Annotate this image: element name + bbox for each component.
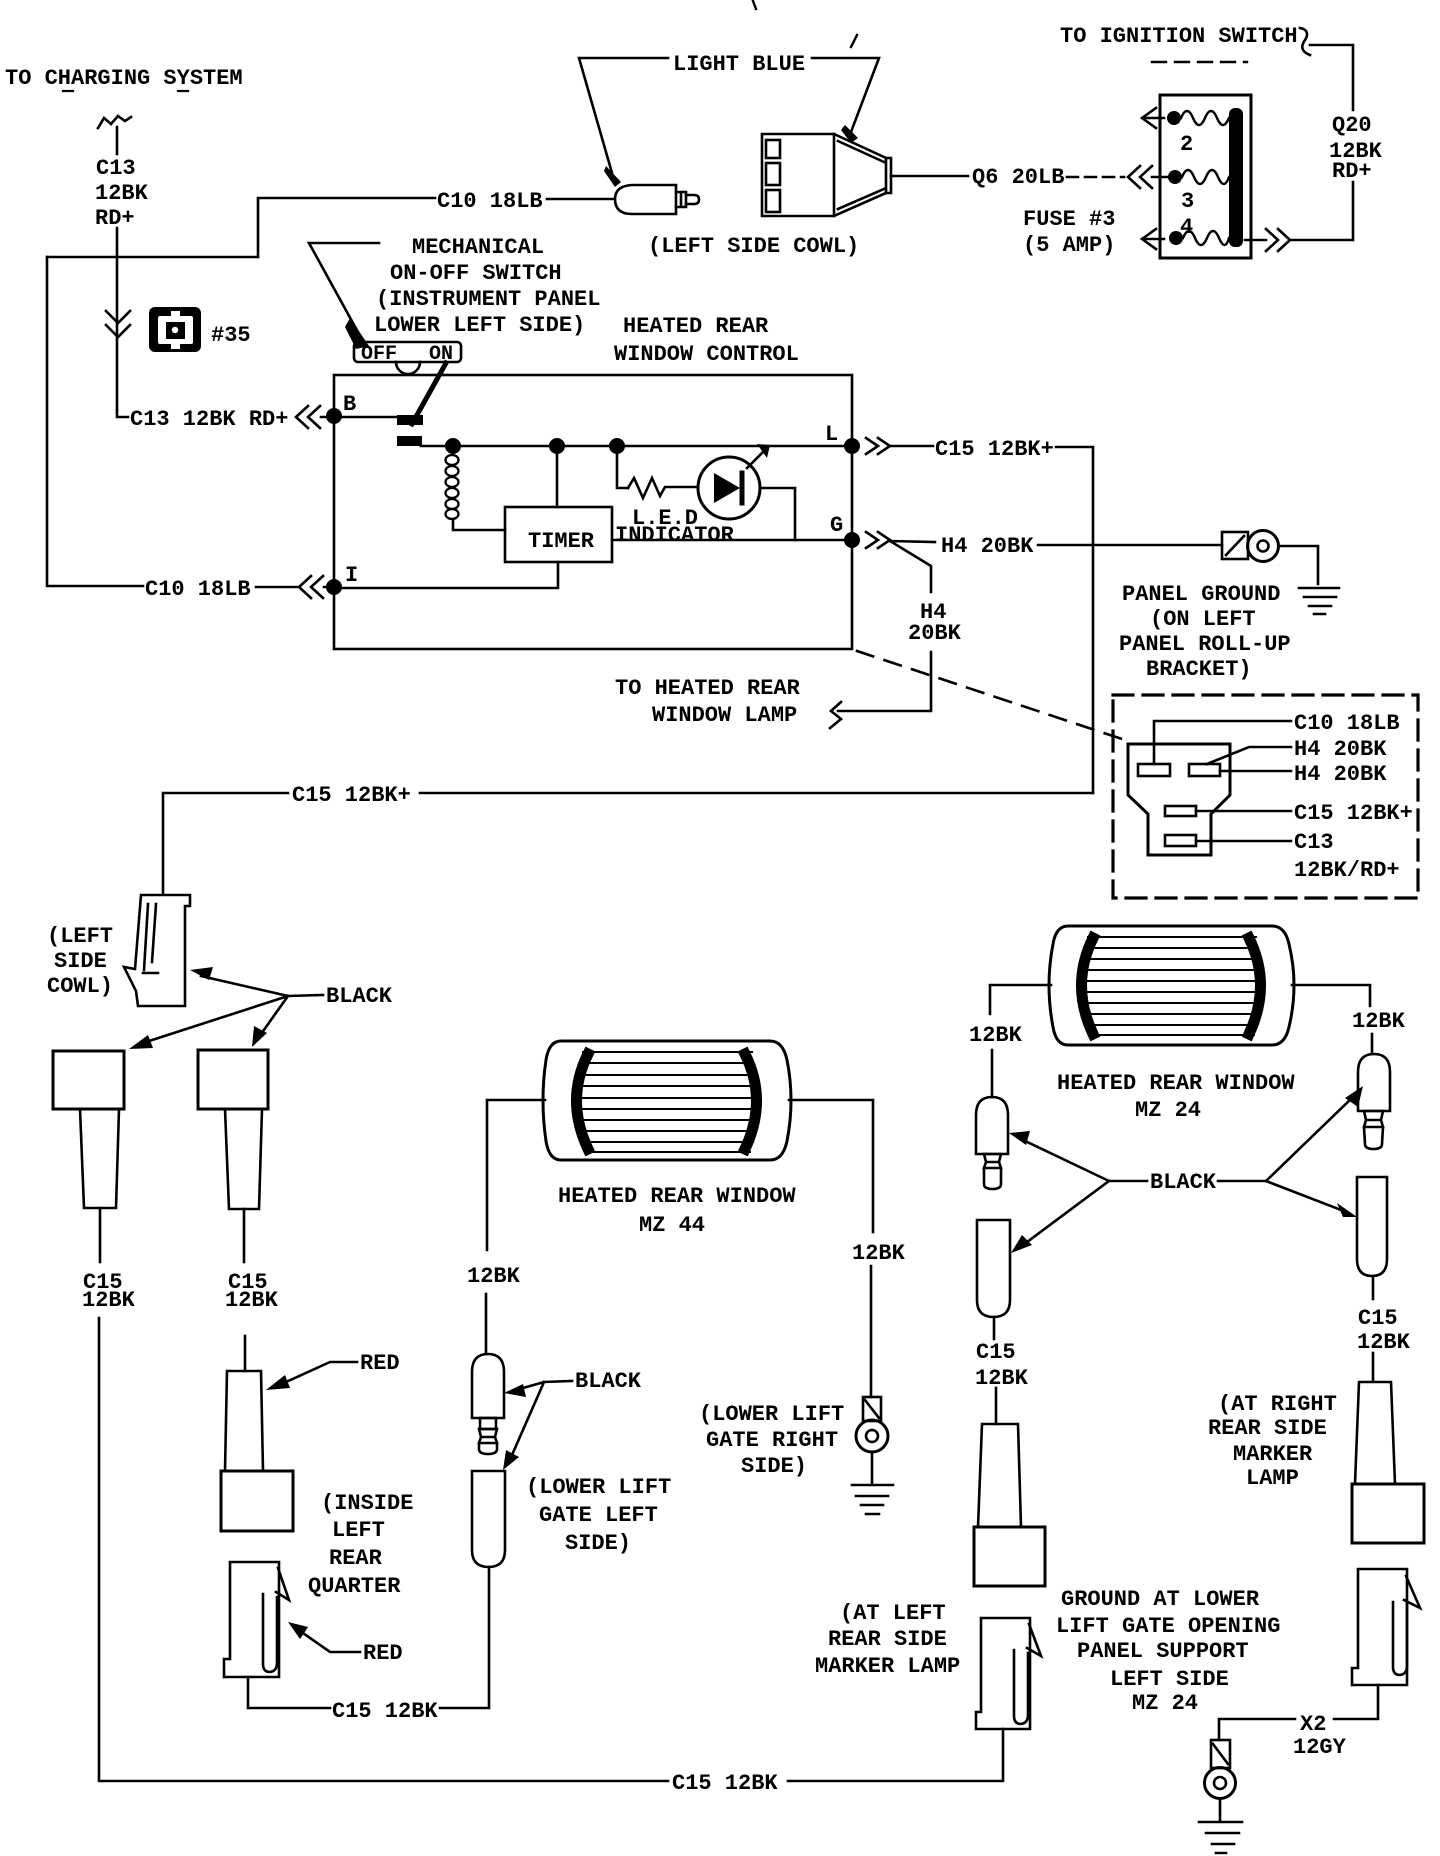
svg-text:G: G [830, 513, 843, 538]
fuse bus bar [1229, 108, 1243, 247]
wire to right marker tower [1372, 1353, 1375, 1381]
svg-text:MECHANICAL: MECHANICAL [412, 235, 544, 260]
svg-text:RD+: RD+ [1332, 159, 1372, 184]
wire to bulb connector [485, 1294, 488, 1354]
connector latch (red lower) [224, 1562, 289, 1677]
chevron connector at node G [866, 532, 935, 548]
eyelet terminal MZ24 ground [1205, 1740, 1236, 1799]
wire eyelet to ground [1279, 546, 1318, 584]
bulb socket connector MZ24 right [1358, 1054, 1390, 1149]
svg-text:#35: #35 [211, 323, 251, 348]
arrowhead at left socket [1009, 1131, 1030, 1145]
wire C10 to bullet connector [547, 198, 614, 201]
wire to socket [991, 1050, 994, 1097]
svg-text:C15 12BK: C15 12BK [332, 1699, 438, 1724]
svg-text:20BK: 20BK [908, 621, 962, 646]
arrowhead at capsule [503, 1450, 519, 1470]
wire node 3 to resistor [617, 453, 628, 488]
leader BLACK to left socket [1023, 1140, 1147, 1181]
leader BLACK to capsule [512, 1382, 544, 1455]
leader RED upper [286, 1362, 357, 1382]
dashed leader from control box to detail [857, 651, 1125, 740]
svg-text:WINDOW LAMP: WINDOW LAMP [652, 703, 797, 728]
arrowhead at left tower [129, 1035, 153, 1049]
pin cavity H4 [1189, 764, 1220, 776]
leader C10 18LB [1154, 721, 1291, 764]
chevron connector fuse output [1266, 229, 1290, 251]
svg-text:MARKER LAMP: MARKER LAMP [815, 1654, 960, 1679]
wire to left marker tower [995, 1388, 998, 1424]
svg-text:INDICATOR: INDICATOR [615, 523, 735, 548]
svg-text:2: 2 [1180, 132, 1193, 157]
svg-text:BRACKET): BRACKET) [1146, 657, 1252, 682]
bulb socket connector (lower lift gate left) [472, 1354, 504, 1454]
svg-text:TIMER: TIMER [528, 529, 595, 554]
stray tick mark top center [753, 1, 756, 9]
terminal tower right body [225, 1109, 262, 1209]
svg-text:FUSE #3: FUSE #3 [1023, 207, 1115, 232]
arrowhead RED lower [288, 1622, 308, 1639]
pin cavity C13 [1165, 835, 1196, 846]
svg-text:SIDE): SIDE) [565, 1531, 631, 1556]
svg-text:C15 12BK+: C15 12BK+ [292, 783, 411, 808]
connector (left side cowl) [124, 895, 190, 1006]
chevron connector into node B [296, 406, 327, 428]
heater element MZ24 grid lines [1085, 937, 1259, 1035]
wire to right socket [1371, 1034, 1374, 1054]
wire left marker to bottom run [788, 1729, 1003, 1781]
svg-text:BLACK: BLACK [575, 1369, 642, 1394]
eyelet terminal (lower lift gate right) [856, 1397, 888, 1452]
svg-text:12BK: 12BK [969, 1023, 1023, 1048]
terminal tower left cap [53, 1051, 124, 1109]
svg-text:MZ 44: MZ 44 [639, 1213, 705, 1238]
chevron connector on C13 wire [106, 311, 130, 337]
wire to eyelet [870, 1266, 873, 1397]
wire eyelet to ground [871, 1452, 874, 1484]
svg-text:(INSIDE: (INSIDE [321, 1491, 413, 1516]
node B [326, 408, 342, 424]
svg-text:C13 12BK RD+: C13 12BK RD+ [130, 407, 288, 432]
svg-text:REAR SIDE: REAR SIDE [1208, 1416, 1327, 1441]
svg-text:PANEL ROLL-UP: PANEL ROLL-UP [1119, 632, 1291, 657]
LED indicator D1 [698, 444, 770, 519]
svg-text:X2: X2 [1300, 1712, 1326, 1737]
svg-text:3: 3 [1181, 189, 1194, 214]
wire dashes to fuse chevron [1067, 176, 1124, 179]
leader BLACK to right capsule [1266, 1181, 1341, 1210]
svg-text:C15: C15 [976, 1340, 1016, 1365]
heater element MZ24 outline [1049, 926, 1294, 1045]
fuse block #3 outline [1160, 95, 1251, 258]
svg-text:TO CHARGING SYSTEM: TO CHARGING SYSTEM [5, 66, 243, 91]
wire H4 to panel ground [1038, 544, 1222, 547]
fuse element middle [1182, 170, 1229, 184]
svg-text:PANEL SUPPORT: PANEL SUPPORT [1077, 1639, 1249, 1664]
svg-text:HEATED REAR: HEATED REAR [623, 314, 769, 339]
wire Q20 top run [1310, 45, 1353, 110]
bulb capsule MZ24 right [1357, 1177, 1387, 1276]
svg-text:GROUND AT LOWER: GROUND AT LOWER [1061, 1587, 1260, 1612]
svg-text:RED: RED [363, 1641, 403, 1666]
leader BLACK to socket [516, 1381, 572, 1390]
arrowhead on bullet connector [604, 166, 621, 187]
svg-text:COWL): COWL) [47, 974, 113, 999]
svg-text:H4 20BK: H4 20BK [1294, 737, 1387, 762]
svg-text:SIDE): SIDE) [741, 1454, 807, 1479]
arrowhead at switch [345, 318, 369, 349]
svg-text:(AT RIGHT: (AT RIGHT [1218, 1392, 1337, 1417]
wire X2 to eyelet [1219, 1719, 1295, 1740]
leader BLACK to left tower [143, 996, 288, 1043]
wire break hook at window lamp [830, 702, 841, 728]
svg-text:12BK: 12BK [1352, 1009, 1406, 1034]
bullet connector male (left side cowl) [615, 185, 699, 214]
svg-text:C10 18LB: C10 18LB [1294, 711, 1400, 736]
node L [844, 438, 860, 454]
svg-text:B: B [343, 392, 356, 417]
wire MZ44 left lead [487, 1100, 545, 1250]
wire below right capsule [1372, 1276, 1375, 1299]
wire node B to switch [341, 416, 398, 419]
node I [326, 579, 342, 595]
svg-text:Q6 20LB: Q6 20LB [972, 165, 1064, 190]
svg-text:C10 18LB: C10 18LB [145, 577, 251, 602]
svg-text:BLACK: BLACK [326, 984, 393, 1009]
svg-text:12BK: 12BK [975, 1366, 1029, 1391]
arrow out of pin 2 [1142, 108, 1164, 128]
splice symbol #35 [149, 307, 201, 352]
svg-text:(AT LEFT: (AT LEFT [840, 1601, 946, 1626]
svg-text:H4 20BK: H4 20BK [1294, 762, 1387, 787]
heater element MZ44 outline [543, 1041, 791, 1160]
wire eyelet to ground MZ24 [1219, 1799, 1222, 1821]
chevron connector at node L [866, 438, 933, 454]
svg-text:LEFT: LEFT [332, 1518, 385, 1543]
arrowhead RED upper [266, 1375, 290, 1390]
svg-text:12BK: 12BK [82, 1288, 136, 1313]
svg-text:12BK: 12BK [467, 1264, 521, 1289]
switch pivot bump [396, 362, 420, 374]
wire rail to node L [421, 445, 852, 448]
heater element MZ44 grid lines [580, 1052, 755, 1152]
svg-text:HEATED REAR WINDOW: HEATED REAR WINDOW [558, 1184, 796, 1209]
wire left vertical to lower C10 label [47, 257, 143, 586]
svg-text:QUARTER: QUARTER [308, 1574, 401, 1599]
arrowhead at left capsule [1011, 1235, 1032, 1253]
svg-text:(5 AMP): (5 AMP) [1023, 233, 1115, 258]
svg-text:(LEFT SIDE COWL): (LEFT SIDE COWL) [648, 234, 859, 259]
wire C15 label to right vertical [420, 792, 1093, 795]
wire C13 vertical [116, 228, 119, 410]
leader BLACK to left capsule [1027, 1181, 1109, 1242]
wire below left tower [99, 1208, 102, 1262]
dashed marks above fuse block [1152, 61, 1247, 63]
svg-text:LIGHT BLUE: LIGHT BLUE [673, 52, 805, 77]
switch OFF-ON box [354, 342, 461, 362]
switch contact bar lower [397, 436, 422, 446]
wire segment to chevron at node I [256, 586, 297, 589]
bulb capsule MZ24 left [977, 1220, 1010, 1317]
heater element MZ44 left arc [577, 1054, 589, 1149]
chevron connector into node I [299, 576, 328, 598]
arrowhead at right tower [252, 1026, 267, 1047]
svg-text:C15 12BK: C15 12BK [672, 1771, 778, 1796]
wire MZ24 right lead [1292, 985, 1370, 1006]
wire below MZ24 left capsule [993, 1317, 996, 1339]
leader BLACK to cowl connector [201, 976, 323, 996]
terminal tower left marker narrow [978, 1424, 1021, 1527]
pin cavity C10 [1138, 764, 1170, 776]
svg-text:L: L [825, 422, 838, 447]
svg-text:LOWER LEFT SIDE): LOWER LEFT SIDE) [374, 313, 585, 338]
junction node 3 [609, 438, 625, 454]
resistor R1 [628, 478, 698, 498]
wire Q6 20LB from connector [891, 175, 968, 178]
svg-text:MZ 24: MZ 24 [1132, 1691, 1198, 1716]
wire below right tower [243, 1209, 246, 1262]
pin cavity C15 [1165, 806, 1196, 816]
svg-text:I: I [345, 563, 358, 588]
terminal tower right marker base [1352, 1484, 1424, 1543]
svg-text:12BK: 12BK [1357, 1330, 1411, 1355]
svg-text:(LEFT: (LEFT [47, 924, 113, 949]
terminal tower left marker base [974, 1527, 1045, 1586]
svg-text:RD+: RD+ [95, 206, 135, 231]
heater element MZ24 left arc [1082, 938, 1094, 1034]
junction node 1 [445, 438, 461, 454]
svg-text:GATE LEFT: GATE LEFT [539, 1503, 658, 1528]
svg-text:LEFT SIDE: LEFT SIDE [1110, 1667, 1229, 1692]
leader C15 12BK+ [1196, 810, 1291, 813]
wire timer to node G [612, 539, 852, 542]
svg-text:12BK: 12BK [225, 1288, 279, 1313]
svg-text:ON: ON [429, 343, 453, 366]
arrow out of pin 4 [1142, 229, 1164, 249]
connector latch left marker [976, 1618, 1041, 1729]
svg-text:C15 12BK+: C15 12BK+ [1294, 801, 1413, 826]
wire red connector to C15 label [248, 1677, 330, 1708]
wire C13 corner to label [117, 410, 128, 417]
node G [844, 532, 860, 548]
svg-text:12BK/RD+: 12BK/RD+ [1294, 858, 1400, 883]
svg-text:HEATED REAR WINDOW: HEATED REAR WINDOW [1057, 1071, 1295, 1096]
wire right marker to X2 [1334, 1685, 1378, 1719]
fuse element bottom [1183, 231, 1229, 245]
wire C13 upper stub [116, 127, 119, 154]
leader H4 20BK lower [1220, 770, 1291, 773]
timer box U1 [505, 507, 612, 562]
svg-text:(LOWER LIFT: (LOWER LIFT [526, 1475, 671, 1500]
wire H4 branch to window lamp [838, 541, 931, 711]
svg-text:RED: RED [360, 1351, 400, 1376]
wire MZ44 right lead [789, 1100, 873, 1232]
arrowhead at socket [504, 1384, 526, 1397]
heater element MZ24 right arc [1249, 938, 1261, 1034]
leader RED lower [303, 1633, 360, 1652]
svg-text:TO IGNITION SWITCH: TO IGNITION SWITCH [1060, 24, 1298, 49]
svg-text:C15 12BK+: C15 12BK+ [935, 437, 1054, 462]
wire break hook at ignition switch [1300, 28, 1310, 55]
svg-text:TO HEATED REAR: TO HEATED REAR [615, 676, 801, 701]
fuse element top [1181, 111, 1229, 125]
heater element MZ44 right arc [745, 1054, 757, 1149]
leader left to bullet connector [579, 58, 668, 173]
ground symbol panel ground [1299, 588, 1339, 614]
svg-text:LAMP: LAMP [1246, 1466, 1299, 1491]
leader right to cowl connector [812, 58, 879, 132]
terminal tower red base [221, 1471, 293, 1531]
svg-text:REAR: REAR [329, 1546, 383, 1571]
ground symbol MZ24 [1199, 1822, 1242, 1853]
svg-text:(ON LEFT: (ON LEFT [1150, 607, 1256, 632]
junction node 2 [549, 438, 565, 454]
terminal tower right cap [198, 1050, 268, 1109]
wire MZ24 left lead [990, 985, 1051, 1014]
wire coil to timer [453, 519, 505, 530]
svg-text:(LOWER LIFT: (LOWER LIFT [699, 1402, 844, 1427]
terminal tower right marker narrow [1355, 1382, 1395, 1484]
relay coil [446, 455, 459, 519]
leader C13 [1196, 840, 1291, 843]
svg-text:12GY: 12GY [1293, 1735, 1347, 1760]
arrowhead at cowl connector [190, 967, 213, 980]
svg-text:H4 20BK: H4 20BK [941, 534, 1034, 559]
terminal tower red narrow body [225, 1371, 263, 1471]
switch lever [412, 363, 446, 424]
svg-text:4: 4 [1180, 215, 1193, 240]
svg-text:BLACK: BLACK [1150, 1170, 1217, 1195]
leader BLACK to right socket [1218, 1098, 1352, 1181]
eyelet terminal panel ground [1222, 531, 1279, 562]
svg-text:C10 18LB: C10 18LB [437, 189, 543, 214]
svg-text:C15: C15 [1358, 1306, 1398, 1331]
bulb capsule (lower lift gate left) [472, 1471, 505, 1567]
connector latch right marker [1352, 1569, 1420, 1685]
tick mark near right leader [851, 35, 857, 47]
switch contact bar upper [397, 415, 423, 425]
svg-text:REAR SIDE: REAR SIDE [828, 1627, 947, 1652]
svg-text:C13: C13 [96, 156, 136, 181]
wire LED to G rail [760, 488, 795, 540]
svg-text:OFF: OFF [361, 343, 397, 366]
fuse pin top [1167, 111, 1181, 125]
wire from bus to output chevron [1245, 239, 1266, 242]
arrowhead on cowl connector [841, 125, 858, 143]
wire label to bulb column [440, 1567, 489, 1708]
wire C15 to right vertical [1056, 447, 1093, 793]
connector back view in detail box [1128, 744, 1230, 855]
svg-text:C13: C13 [1294, 830, 1334, 855]
dashed detail box [1113, 695, 1418, 898]
connector housing (left side cowl) [762, 134, 891, 216]
wire long left vertical [99, 1318, 668, 1781]
wire break squiggle C13 to charging system [98, 116, 131, 128]
svg-text:MZ 24: MZ 24 [1135, 1098, 1201, 1123]
terminal tower left body [80, 1109, 119, 1208]
wire right tower to red connector [244, 1336, 247, 1371]
wire Q20 lower run to fuse output [1290, 182, 1353, 240]
leader H4 20BK upper [1207, 747, 1291, 764]
wire node I internal to timer [334, 562, 558, 588]
svg-text:LIFT GATE OPENING: LIFT GATE OPENING [1056, 1614, 1280, 1639]
wire node 2 to timer [556, 453, 559, 507]
svg-text:GATE RIGHT: GATE RIGHT [706, 1428, 838, 1453]
arrowhead at right socket [1345, 1086, 1363, 1107]
fuse pin bottom [1169, 231, 1183, 245]
svg-text:WINDOW CONTROL: WINDOW CONTROL [614, 342, 799, 367]
control box outline [334, 375, 852, 649]
svg-text:ON-OFF SWITCH: ON-OFF SWITCH [390, 261, 562, 286]
bulb socket connector MZ24 left [976, 1097, 1008, 1189]
svg-text:(INSTRUMENT PANEL: (INSTRUMENT PANEL [376, 287, 600, 312]
leader BLACK to right tower [261, 996, 288, 1034]
svg-text:12BK: 12BK [852, 1241, 906, 1266]
tick marks under label [63, 90, 188, 92]
wire step up to C10 label [258, 198, 435, 257]
fuse pin middle [1168, 170, 1182, 184]
svg-text:SIDE: SIDE [54, 949, 107, 974]
leader to switch [309, 243, 379, 334]
ground symbol (lower lift gate right) [852, 1485, 893, 1514]
svg-text:Q20: Q20 [1332, 113, 1372, 138]
chevron connector into pin 3 [1128, 166, 1167, 188]
svg-text:MARKER: MARKER [1233, 1442, 1313, 1467]
wire C10 horizontal run y257 [47, 256, 258, 259]
arrowhead at right capsule [1337, 1203, 1357, 1217]
svg-text:12BK: 12BK [95, 181, 149, 206]
svg-text:PANEL GROUND: PANEL GROUND [1122, 582, 1280, 607]
wire C15 12BK+ horizontal run [163, 793, 288, 893]
